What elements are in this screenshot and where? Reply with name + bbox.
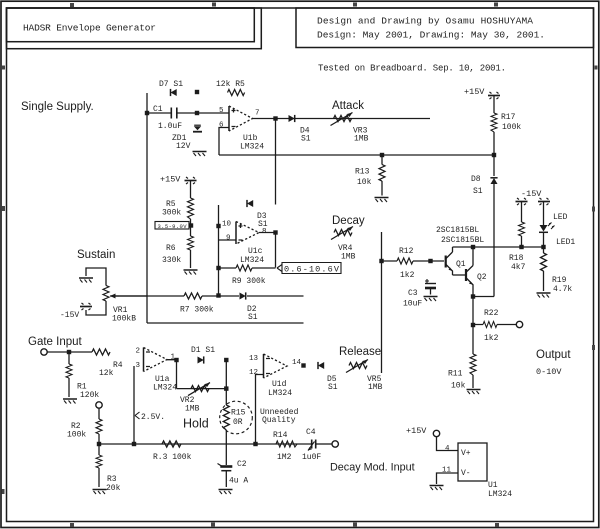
svg-text:LM324: LM324 [240,256,264,265]
wire attack output [253,118,431,120]
svg-text:Sustain: Sustain [77,249,115,261]
wire Q2 emitter to D8 leg [473,296,494,298]
potentiometer VR1 100kB [103,286,147,324]
op-amp U1d [264,354,288,378]
node callout attach [189,223,193,227]
svg-text:R9 300k: R9 300k [232,277,266,286]
node R9 left [216,266,220,270]
svg-text:R.3 100k: R.3 100k [153,453,192,462]
svg-text:-15V: -15V [60,311,79,320]
wire V- to ground [437,473,459,484]
svg-text:C1: C1 [153,105,163,114]
svg-text:R13: R13 [355,168,370,177]
wire VR1 top to ground [86,268,106,286]
svg-text:Release: Release [339,346,381,358]
resistor R.3 100k (hold leak) [153,441,192,462]
wire V+ supply [437,437,459,451]
node R2/R3 [97,442,101,446]
svg-text:S1: S1 [258,220,268,229]
resistor R11 10k [448,325,476,391]
svg-text:0R: 0R [233,418,243,427]
ground below C3 [424,297,438,302]
svg-text:Output: Output [536,349,571,361]
svg-text:3.5-9.0V: 3.5-9.0V [158,223,188,230]
svg-text:R6: R6 [166,244,176,253]
resistor R17 100k [491,113,521,132]
svg-text:LED: LED [553,213,568,222]
wire VR2 path [177,360,227,405]
svg-text:LED1: LED1 [556,238,575,247]
resistor R22 1k2 [473,309,516,343]
capacitor C2 (timing) [218,460,249,487]
title block (left) [7,8,262,49]
node bus/LED [541,245,545,249]
svg-text:1MB: 1MB [341,253,356,262]
svg-text:LM324: LM324 [268,389,292,398]
wire comparator ref rail [133,366,135,444]
voltage callout box (divider node) [155,222,189,230]
node ref tap [132,442,136,446]
svg-text:10: 10 [222,221,232,229]
node bus/Q2 collector [471,245,475,249]
svg-text:300k: 300k [162,209,181,218]
op-amp U1a [144,348,168,372]
resistor R5 12k (floating, top) [216,80,245,96]
svg-text:+15V: +15V [160,175,181,185]
node VR2/R15 [224,386,228,390]
svg-text:2: 2 [136,348,141,356]
svg-text:+15V: +15V [464,87,485,97]
svg-text:12V: 12V [176,142,191,151]
svg-text:12k R5: 12k R5 [216,80,245,89]
ground VR1 top [79,278,93,283]
svg-text:5: 5 [219,107,224,115]
wire emitter node to output [472,297,474,326]
svg-text:R17: R17 [501,113,516,122]
wire gate input [47,351,92,353]
wire current bus [453,246,544,248]
resistor R1 120k [66,352,99,400]
op-amp U1b [229,106,253,131]
potentiometer VR3 [331,113,369,144]
svg-text:D7 S1: D7 S1 [159,80,183,89]
ground below R1 [63,399,77,404]
svg-text:Tested on Breadboard. Sep. 10: Tested on Breadboard. Sep. 10, 2001. [318,64,506,74]
resistor R13 10k [355,155,385,196]
potentiometer VR2 (on wire) [180,383,210,414]
svg-text:1k2: 1k2 [400,271,415,280]
wire summing rail [381,232,383,373]
svg-text:+15V: +15V [406,426,427,436]
power +15V (divider) [160,175,197,185]
svg-text:2.5V.: 2.5V. [141,413,165,422]
svg-text:R12: R12 [399,247,414,256]
ground below R19 [537,293,551,298]
potentiometer VR4 (floating) [331,227,356,262]
wire R9 feedback [219,267,276,269]
design info text [317,16,545,41]
svg-text:-15V: -15V [521,189,542,199]
node R12/C3 [428,259,432,263]
LED LED1 [539,213,575,247]
power +15V (R17) [464,87,500,99]
svg-text:Quality: Quality [262,416,296,425]
op-amp U1a labels [136,348,178,393]
svg-text:R22: R22 [484,309,499,318]
svg-text:S1: S1 [248,313,258,322]
transistor Q2 [453,247,487,297]
svg-text:1k2: 1k2 [484,334,499,343]
node C1/ZD1 junction [195,111,199,115]
wire C1 input [147,112,229,114]
svg-text:330k: 330k [162,256,181,265]
svg-text:1MB: 1MB [368,383,383,392]
svg-text:Design: May 2001, Drawing: Ma: Design: May 2001, Drawing: May 30, 2001. [317,30,545,41]
wire R17 to bus [493,132,495,155]
svg-text:C2: C2 [237,460,247,469]
svg-text:0.6-10.6V: 0.6-10.6V [284,265,340,275]
IC U1 power box [442,443,487,481]
svg-text:1MB: 1MB [354,135,369,144]
resistor R12 1k2 [382,247,445,280]
svg-text:4.7k: 4.7k [553,285,572,294]
terminal gate input [41,349,47,355]
wire U1c feedback tap [219,239,237,241]
diode D8 [471,175,498,196]
op-amp U1d labels [249,355,292,398]
node hold top [224,358,228,362]
svg-text:2SC1815BL: 2SC1815BL [441,236,484,245]
annotation threshold [135,412,165,422]
svg-text:HADSR Envelope Generator: HADSR Envelope Generator [23,23,156,34]
svg-text:R18: R18 [509,254,524,263]
svg-text:Gate Input: Gate Input [28,336,83,348]
terminal decay mod input [332,441,338,447]
svg-text:Q1: Q1 [456,260,466,269]
trimmer R15 0R dashed circle [220,401,253,434]
ground below R6 [184,270,198,275]
resistor R2 100k [67,408,102,444]
resistor R5 300k [162,198,194,219]
node bus/R18 [519,245,523,249]
node floating square [195,90,199,94]
svg-text:D1 S1: D1 S1 [191,346,215,355]
svg-text:9: 9 [226,235,231,243]
wire U1a output [167,360,177,389]
svg-text:20k: 20k [106,484,121,493]
note unneeded quality [260,408,299,425]
transistor Q1 [446,247,466,275]
svg-text:R19: R19 [552,276,567,285]
wire -15V to R18 [521,202,523,222]
svg-text:LM324: LM324 [153,384,177,393]
diode D7 (floating) [159,80,183,96]
svg-text:4k7: 4k7 [511,263,526,272]
resistor R18 4k7 [509,222,526,272]
svg-text:R4: R4 [113,361,123,370]
svg-text:4u A: 4u A [229,477,248,486]
svg-text:Decay Mod. Input: Decay Mod. Input [330,462,415,474]
ground U1 supply [430,486,444,491]
svg-text:C3: C3 [408,289,418,298]
power -15V pair [516,189,551,205]
svg-text:R7 300k: R7 300k [180,306,214,315]
node sustain wire [216,293,220,297]
ground below ZD1 [193,152,207,157]
node bus/R13 [380,153,384,157]
node emitter junction [471,294,475,298]
wire C4 to terminal [316,443,332,445]
ground below R13 [375,198,389,203]
node rail/R12 [379,259,383,263]
svg-text:Attack: Attack [332,100,364,112]
diode D3 (floating) [247,200,268,229]
wire R15 to C2 [225,430,227,465]
IC U1 labels [488,481,512,499]
svg-text:U1c: U1c [248,247,263,256]
resistor R3 20k (lower) [96,444,121,493]
wire U1c output [259,233,276,268]
svg-text:120k: 120k [80,391,99,400]
ground below R3 [93,490,107,495]
wire D8 down to mirror [493,184,495,297]
wire VR1 bottom to -15V [86,301,106,315]
diode D4 [289,115,311,144]
wire LED to bus [543,233,545,248]
wire R6 to ground [190,250,192,268]
svg-text:Single Supply.: Single Supply. [21,101,94,113]
svg-text:R11: R11 [448,370,463,379]
wire left rail [146,93,148,323]
svg-text:14: 14 [292,359,302,367]
svg-text:V-: V- [461,469,471,478]
svg-text:U1: U1 [488,481,498,490]
svg-text:Design and Drawing by Osamu HO: Design and Drawing by Osamu HOSHUYAMA [317,16,533,27]
svg-text:R14: R14 [273,431,288,440]
svg-text:10k: 10k [451,382,466,391]
svg-text:R15: R15 [231,409,246,418]
svg-text:C4: C4 [306,428,316,437]
svg-text:S1: S1 [473,187,483,196]
diode D2 [240,292,258,322]
capacitor C3 10uF [403,279,436,309]
svg-text:6: 6 [219,122,224,130]
svg-text:D8: D8 [471,175,481,184]
svg-text:3: 3 [136,362,141,370]
transistor labels 2SC1815BL [436,226,484,245]
wire feedback bus [219,154,494,156]
node gate/R1 [67,350,71,354]
potentiometer VR5 (floating) [346,360,383,393]
wire +15V to R5 [190,181,192,198]
svg-text:1.0uF: 1.0uF [158,122,182,131]
resistor R7 300k [180,293,214,315]
svg-text:R3: R3 [107,475,117,484]
node bus/R17 [492,153,496,157]
wire U1d pin12 down [256,375,264,445]
resistor R19 4.7k [541,247,573,294]
design info box (right) [296,8,594,48]
capacitor C1 [153,105,182,131]
svg-text:LM324: LM324 [240,143,264,152]
svg-text:12k: 12k [99,369,114,378]
svg-text:2SC1815BL: 2SC1815BL [436,226,479,235]
wire divider node [190,219,192,236]
wire bus down to D8 [493,155,495,176]
power +15V terminal (U1 supply) [406,426,440,437]
svg-text:100k: 100k [502,123,521,132]
wire bus to release node [147,322,304,324]
node attack/decay branch [273,116,277,120]
wire U1b feedback [219,128,229,156]
zener ZD1 [172,125,202,151]
node rail/C1 junction [145,111,149,115]
svg-text:13: 13 [249,355,259,363]
resistor R14 1M2 [273,431,297,462]
svg-text:S1: S1 [328,383,338,392]
node pin12 tap [253,442,257,446]
op-amp U1b labels [219,107,264,152]
svg-text:Q2: Q2 [477,273,487,282]
svg-text:4: 4 [445,445,450,453]
svg-text:Hold: Hold [183,417,209,431]
resistor R6 330k [162,236,194,265]
ground below R11 [467,390,481,395]
wire -15V to LED [543,202,545,225]
node pin10 [216,224,220,228]
wire U1c input stub [218,205,220,296]
sustain wiper wire [110,295,304,297]
svg-text:10uF: 10uF [403,300,422,309]
capacitor C4 [302,428,321,462]
node U1d output [292,359,306,368]
terminal R2 top [96,402,102,408]
op-amp U1c [236,222,259,245]
svg-text:LM324: LM324 [488,490,512,499]
resistor R9 300k [232,265,266,286]
op-amp U1c labels [222,221,267,266]
voltage callout 0.6-10.6V [277,263,341,275]
svg-text:1MB: 1MB [185,405,200,414]
diode D1 (floating) [191,346,215,364]
node output tap [471,323,475,327]
resistor R4 12k [92,349,123,378]
power -15V (VR1) [60,303,92,320]
svg-text:1M2: 1M2 [277,453,292,462]
svg-text:100k: 100k [67,431,86,440]
wire +15V to R17 [493,96,495,113]
terminal output [516,321,522,327]
wire decay branch upper [275,119,277,205]
svg-text:U1d: U1d [272,380,287,389]
wire hold bus [99,443,311,445]
svg-text:1u0F: 1u0F [302,453,321,462]
svg-text:V+: V+ [461,449,471,458]
svg-text:10k: 10k [357,178,372,187]
node U1a output [174,358,178,362]
svg-text:0-10V: 0-10V [536,367,562,377]
svg-text:12: 12 [249,369,258,377]
diode D5 (floating) [318,362,338,392]
svg-text:S1: S1 [301,135,311,144]
svg-text:Decay: Decay [332,215,365,227]
ground below C2 [219,490,233,495]
svg-text:7: 7 [255,110,260,118]
svg-text:100kB: 100kB [112,315,136,324]
node U1c output [273,230,277,234]
